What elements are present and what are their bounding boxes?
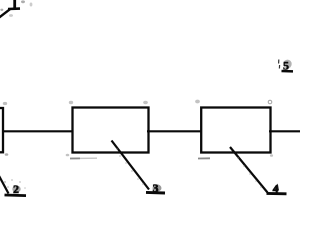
label 4 (underlined digit) <box>267 182 287 196</box>
wire from block 1 to block 2 <box>2 130 73 132</box>
label 5 (underlined digit, right side) <box>279 59 293 73</box>
block 2 (middle box) <box>73 108 149 153</box>
wire from block 3 to right edge <box>269 130 300 132</box>
block 1 (leftmost box, cut off at left edge) <box>0 108 3 152</box>
label 2 (underlined digit) <box>5 182 27 196</box>
leader line of label 1 <box>0 9 10 20</box>
label 3 (underlined digit) <box>146 181 165 195</box>
wire from block 2 to block 3 <box>147 130 202 132</box>
block 3 (right box) <box>201 108 270 153</box>
leader line of label 4 (from bottom of block 3) <box>230 147 268 193</box>
label 1 (top-left, digit cropped by image edge, with underline) <box>8 0 20 9</box>
leader line of label 3 (from bottom of block 2) <box>112 141 150 190</box>
leader line of label 2 <box>0 174 9 194</box>
scan noise and smudges (decorative) <box>0 0 273 188</box>
